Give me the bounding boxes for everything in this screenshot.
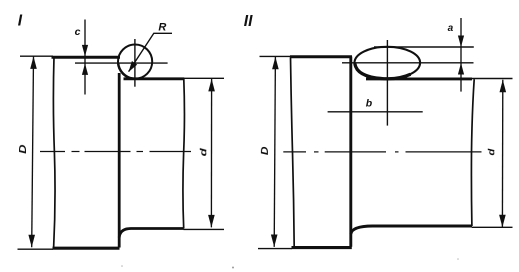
svg-text:I: I	[18, 12, 23, 29]
svg-text:R: R	[158, 22, 166, 34]
svg-text:D: D	[259, 146, 271, 155]
svg-text:d: d	[198, 148, 209, 156]
svg-text:a: a	[448, 23, 454, 34]
svg-text:c: c	[75, 26, 81, 38]
svg-text:II: II	[244, 13, 253, 30]
svg-text:D: D	[17, 144, 29, 154]
svg-text:b: b	[366, 98, 373, 110]
svg-text:d: d	[486, 148, 497, 155]
